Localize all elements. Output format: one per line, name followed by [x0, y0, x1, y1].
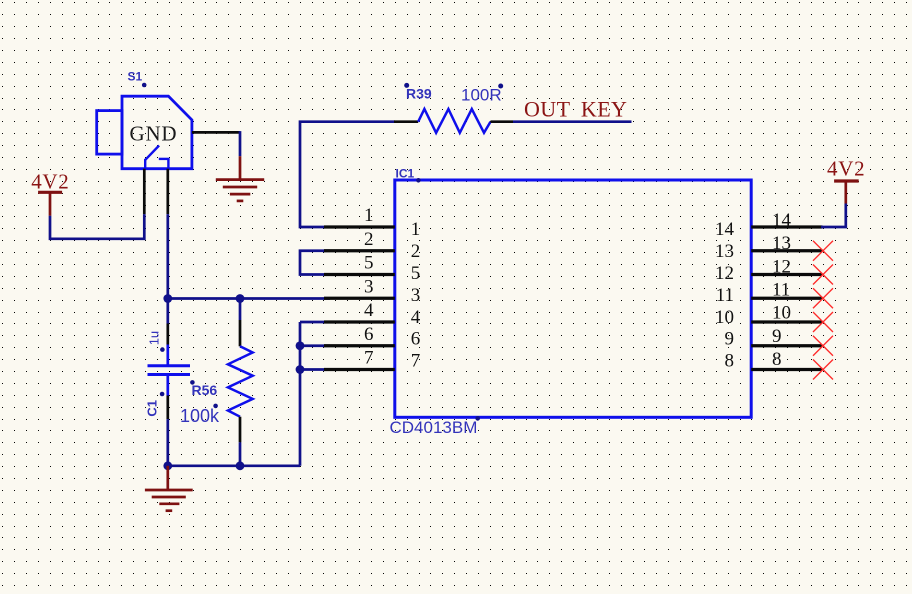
wire bottom rail — [168, 464, 300, 467]
wire pins 2-5 loop — [300, 251, 330, 275]
svg-text:9: 9 — [772, 326, 782, 347]
svg-text:13: 13 — [715, 241, 734, 262]
svg-text:11: 11 — [716, 285, 734, 306]
wire switch pin3 down to node A — [166, 169, 169, 299]
power 4V2 left — [31, 169, 69, 216]
value 1u — [147, 331, 165, 352]
svg-text:C1: C1 — [145, 400, 160, 417]
no-ERC mark pin 8 — [813, 360, 833, 380]
svg-text:GND: GND — [130, 122, 178, 146]
svg-text:7: 7 — [364, 348, 374, 369]
svg-text:R56: R56 — [192, 382, 218, 398]
wire 4V2 to switch pin1 — [50, 169, 144, 239]
node A junction — [163, 294, 172, 303]
capacitor C1 — [148, 299, 191, 466]
svg-text:2: 2 — [411, 241, 421, 262]
svg-text:IC1: IC1 — [396, 167, 415, 181]
IC right pins — [751, 227, 822, 370]
designator IC1 — [396, 167, 421, 183]
designator R39 — [404, 83, 432, 101]
ground near switch — [216, 156, 264, 201]
svg-text:7: 7 — [411, 351, 421, 372]
no-ERC mark pin 10 — [813, 312, 833, 332]
svg-text:1u: 1u — [147, 331, 162, 345]
svg-text:2: 2 — [364, 229, 374, 250]
svg-text:8: 8 — [772, 349, 782, 370]
wire 4V2 to pin 14 — [821, 204, 846, 228]
svg-text:R39: R39 — [406, 85, 432, 101]
junction C1 bottom — [163, 461, 172, 470]
wire right riser to pins 4,6,7 — [300, 322, 330, 466]
svg-text:11: 11 — [772, 279, 790, 300]
svg-text:1: 1 — [411, 219, 421, 240]
no-ERC mark pin 12 — [813, 265, 833, 285]
pin numbers inside left — [411, 219, 421, 372]
wire switch pin2 to ground — [192, 131, 240, 156]
no-ERC mark pin 13 — [813, 241, 833, 261]
svg-text:10: 10 — [715, 307, 734, 328]
no-ERC mark pin 11 — [813, 288, 833, 308]
svg-text:9: 9 — [725, 329, 735, 350]
svg-text:6: 6 — [364, 324, 374, 345]
designator C1 — [145, 392, 165, 417]
power 4V2 right — [827, 157, 865, 204]
svg-text:4V2: 4V2 — [827, 157, 865, 181]
svg-text:14: 14 — [772, 210, 792, 231]
op IC1 body — [395, 180, 751, 417]
junction R56 top — [236, 294, 245, 303]
ground below C1 — [145, 466, 193, 511]
svg-text:3: 3 — [364, 276, 374, 297]
value 100R — [461, 84, 503, 105]
svg-text:4: 4 — [411, 307, 421, 328]
designator S1 — [128, 70, 147, 88]
value 100k — [180, 404, 220, 426]
svg-text:S1: S1 — [128, 70, 143, 84]
svg-text:5: 5 — [411, 263, 421, 284]
svg-text:12: 12 — [772, 256, 791, 277]
resistor R39 — [394, 109, 513, 133]
junction pin 6 — [296, 341, 305, 350]
wire pin 1 up to R39 — [300, 122, 395, 227]
svg-text:CD4013BM: CD4013BM — [390, 418, 478, 437]
svg-text:12: 12 — [715, 263, 734, 284]
designator R56 — [190, 380, 217, 398]
junction R56 bottom — [236, 461, 245, 470]
svg-text:100R: 100R — [461, 86, 502, 105]
pin numbers outside left — [364, 205, 374, 369]
resistor R56 — [228, 299, 253, 466]
wire R39 to OUT KEY — [513, 120, 632, 123]
switch S1 — [97, 96, 192, 169]
svg-text:100k: 100k — [180, 406, 220, 426]
wire node A to IC pin 3 — [168, 297, 330, 300]
svg-text:4: 4 — [364, 300, 374, 321]
svg-text:5: 5 — [364, 253, 374, 274]
svg-text:4V2: 4V2 — [31, 169, 69, 193]
part CD4013BM — [390, 416, 481, 437]
svg-text:OUT KEY: OUT KEY — [524, 96, 627, 121]
pin numbers inside right — [715, 219, 735, 372]
svg-text:3: 3 — [411, 285, 421, 306]
no-ERC mark pin 9 — [813, 336, 833, 356]
svg-text:14: 14 — [715, 219, 735, 240]
svg-text:10: 10 — [772, 303, 791, 324]
svg-text:6: 6 — [411, 329, 421, 350]
junction pin 7 — [296, 365, 305, 374]
svg-text:1: 1 — [364, 205, 374, 226]
svg-text:13: 13 — [772, 233, 791, 254]
pin numbers outside right — [772, 210, 792, 370]
IC left pins — [324, 227, 395, 370]
svg-text:8: 8 — [725, 351, 735, 372]
